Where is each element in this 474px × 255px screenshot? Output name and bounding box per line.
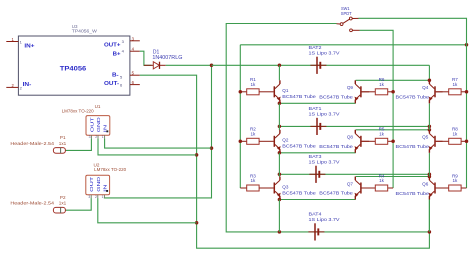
- svg-text:LM78xx TO-220: LM78xx TO-220: [62, 109, 94, 114]
- svg-text:Q9: Q9: [347, 85, 354, 90]
- svg-text:1k: 1k: [379, 178, 385, 183]
- svg-text:OUT-: OUT-: [104, 81, 119, 87]
- svg-text:Q1: Q1: [282, 88, 289, 93]
- svg-text:BAT2: BAT2: [309, 45, 322, 51]
- svg-text:1k: 1k: [452, 82, 458, 87]
- svg-text:BC547B Tube: BC547B Tube: [319, 144, 353, 149]
- svg-text:1x1: 1x1: [59, 141, 67, 146]
- svg-text:2: 2: [95, 195, 97, 199]
- svg-text:1k: 1k: [379, 82, 385, 87]
- svg-text:1S Lipo 3.7V: 1S Lipo 3.7V: [309, 50, 341, 56]
- svg-text:OUT: OUT: [89, 177, 95, 192]
- svg-text:BAT3: BAT3: [309, 154, 322, 160]
- svg-text:BC547B Tube: BC547B Tube: [319, 191, 353, 196]
- svg-text:2: 2: [95, 135, 97, 139]
- svg-text:BC547B Tube: BC547B Tube: [396, 191, 430, 196]
- svg-text:Q5: Q5: [422, 135, 429, 140]
- svg-text:1S Lipo 3.7V: 1S Lipo 3.7V: [309, 159, 341, 165]
- svg-text:Q6: Q6: [422, 181, 429, 186]
- svg-text:1k: 1k: [452, 178, 458, 183]
- svg-text:U1: U1: [95, 104, 101, 109]
- svg-text:SPDT: SPDT: [341, 11, 352, 17]
- svg-text:IN-: IN-: [23, 82, 32, 88]
- svg-text:Q8: Q8: [347, 135, 354, 140]
- svg-text:P1: P1: [60, 135, 66, 140]
- svg-text:LM78xx TO-220: LM78xx TO-220: [94, 167, 126, 172]
- svg-text:BC547B Tube: BC547B Tube: [282, 94, 316, 99]
- svg-text:BAT4: BAT4: [309, 212, 322, 218]
- svg-text:Q7: Q7: [347, 181, 354, 186]
- svg-text:Header-Male-2.54: Header-Male-2.54: [10, 201, 54, 206]
- svg-text:1: 1: [102, 135, 104, 139]
- svg-text:1: 1: [102, 195, 104, 199]
- svg-text:BC547B Tube: BC547B Tube: [282, 190, 316, 195]
- svg-text:Q3: Q3: [282, 184, 289, 189]
- svg-text:Q2: Q2: [282, 138, 289, 143]
- svg-text:BC547B Tube: BC547B Tube: [396, 144, 430, 149]
- svg-text:BC547B Tube: BC547B Tube: [319, 94, 353, 99]
- svg-text:1k: 1k: [250, 82, 256, 87]
- svg-text:Q4: Q4: [422, 85, 429, 90]
- svg-text:IN+: IN+: [24, 43, 35, 49]
- svg-text:B-: B-: [112, 73, 119, 79]
- svg-text:1k: 1k: [250, 178, 256, 183]
- svg-text:1x1: 1x1: [59, 201, 67, 206]
- svg-text:1k: 1k: [379, 132, 385, 137]
- svg-text:OUT: OUT: [89, 117, 95, 132]
- svg-text:1S Lipo 3.7V: 1S Lipo 3.7V: [309, 217, 341, 223]
- svg-text:3: 3: [89, 135, 91, 139]
- svg-text:1k: 1k: [452, 132, 458, 137]
- svg-text:B+: B+: [113, 51, 122, 57]
- svg-text:BAT1: BAT1: [309, 106, 322, 112]
- svg-text:1N4007RLG: 1N4007RLG: [152, 55, 182, 61]
- svg-text:GND: GND: [96, 176, 102, 192]
- svg-text:P2: P2: [60, 195, 66, 200]
- svg-text:TP4056: TP4056: [60, 66, 87, 73]
- svg-text:3: 3: [88, 195, 90, 199]
- svg-text:OUT+: OUT+: [104, 43, 121, 49]
- svg-text:Header-Male-2.54: Header-Male-2.54: [10, 141, 54, 146]
- svg-text:BC547B Tube: BC547B Tube: [396, 95, 430, 100]
- svg-text:BC547B Tube: BC547B Tube: [282, 144, 316, 149]
- svg-text:1k: 1k: [250, 132, 256, 137]
- svg-text:1S Lipo 3.7V: 1S Lipo 3.7V: [309, 111, 341, 117]
- svg-text:TP4056_W: TP4056_W: [72, 29, 98, 34]
- svg-text:GND: GND: [96, 116, 102, 132]
